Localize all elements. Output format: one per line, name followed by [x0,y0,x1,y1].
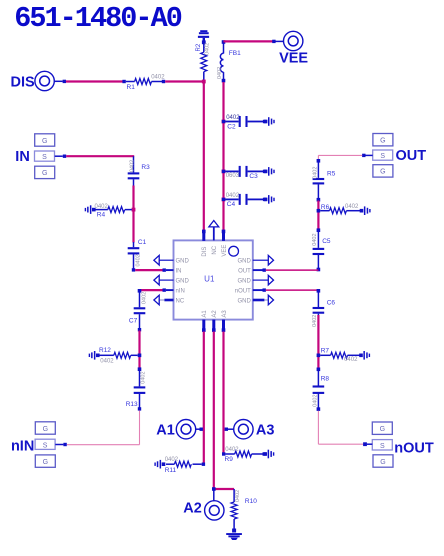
connector DIS [11,71,67,90]
wire C7 to R12 junction [138,331,140,369]
svg-text:OUT: OUT [396,148,427,164]
junction R6 node [317,209,321,213]
wire A2 rail [213,332,215,490]
resistor R6 (shunt) [320,204,360,214]
capacitor C2 [222,115,267,130]
svg-text:R12: R12 [99,347,111,354]
pin GND of U1 (right row5) [237,295,273,305]
junction A1 connector node [196,428,203,431]
svg-text:DIS: DIS [11,75,36,91]
svg-text:0402: 0402 [95,204,109,210]
capacitor C1 [128,239,147,272]
capacitor C6 [312,289,335,327]
svg-text:DIS: DIS [202,247,208,257]
pin GND of U1 (right row1) [237,255,273,265]
ferrite bead FB1 [217,40,241,82]
pin A2 of U1 (bottom) [212,310,218,332]
svg-text:R4: R4 [97,211,106,218]
svg-text:IN: IN [15,149,30,165]
svg-text:0402: 0402 [204,43,210,55]
capacitor C4 [222,193,267,208]
svg-text:GND: GND [237,298,251,304]
pin NC of U1 (left row5) [154,295,185,305]
wire A1 rail [203,332,205,465]
IC U1 body [174,240,253,319]
svg-text:651-1480-A0: 651-1480-A0 [14,2,182,35]
svg-text:0402: 0402 [136,254,142,266]
svg-text:nIN: nIN [176,288,185,294]
pin A3 of U1 (bottom) [222,310,228,332]
svg-text:A3: A3 [256,423,275,439]
capacitor C7 [129,289,147,331]
junction A3 connector node [225,428,234,431]
svg-text:0402: 0402 [151,75,165,81]
svg-text:IN: IN [176,269,182,275]
port IN (G-S-G pads) [15,134,66,179]
resistor R3 (series) [128,156,150,186]
svg-text:G: G [380,138,385,145]
svg-text:0402: 0402 [344,357,358,363]
svg-text:C2: C2 [227,123,236,130]
svg-text:G: G [380,459,385,466]
wire A3 rail [222,332,224,455]
ground at C3 [264,167,275,176]
svg-text:nOUT: nOUT [235,288,251,294]
svg-text:GND: GND [237,259,251,265]
svg-text:nIN: nIN [11,438,34,454]
wire DIS-R1 [66,80,123,82]
junction R7 node [317,354,321,358]
svg-text:S: S [42,154,47,161]
junction R4 node [132,208,136,212]
svg-text:0402: 0402 [217,67,223,79]
resistor R8 (series) [312,368,329,411]
ground at R12 [89,351,100,360]
wire R8 to nOUT port [318,411,363,444]
svg-text:NC: NC [212,245,218,254]
resistor R1 [122,75,165,91]
svg-text:G: G [43,459,48,466]
junction DIS-R2 node [202,80,206,84]
svg-text:A1: A1 [156,423,175,439]
pin IN of U1 (left) [163,268,182,274]
pin A1 of U1 (bottom) [202,310,208,332]
resistor R13 (series) [126,367,147,410]
ground at R11 [154,460,165,469]
svg-text:GND: GND [176,259,190,265]
svg-text:R10: R10 [245,498,257,505]
svg-text:OUT: OUT [238,269,251,275]
wire nIN pin to C7 [140,289,163,291]
svg-text:S: S [380,443,385,450]
svg-text:R13: R13 [126,401,138,408]
resistor R5 (series) [313,159,336,202]
svg-text:C1: C1 [138,239,147,246]
wire C1 to IN pin [135,269,162,271]
svg-text:0402: 0402 [312,233,318,245]
svg-text:FB1: FB1 [229,50,241,57]
svg-text:0402: 0402 [141,371,147,383]
wire R5 to C5 [317,201,319,229]
svg-text:0402: 0402 [100,359,114,365]
ground at R10 (down) [226,529,242,541]
svg-text:0402: 0402 [141,292,147,304]
pin GND of U1 (right row3) [237,275,273,285]
resistor R9 (shunt) [222,447,266,463]
wire nOUT pin to C6 [266,289,319,291]
svg-text:A2: A2 [183,500,202,516]
pin DIS of U1 (top) [202,230,208,257]
svg-text:C5: C5 [322,238,331,245]
junction A2 corner node [212,487,216,491]
svg-text:GND: GND [237,279,251,285]
ground at R9 [263,450,274,459]
svg-text:R3: R3 [141,164,150,171]
svg-text:R8: R8 [321,376,330,383]
svg-text:U1: U1 [204,275,215,284]
svg-text:S: S [380,153,385,160]
svg-text:A1: A1 [202,310,208,318]
capacitor C5 [312,228,331,271]
connector VEE [272,31,308,66]
svg-text:0402: 0402 [313,167,319,179]
pin nIN of U1 (left) [163,288,185,294]
resistor R2 [196,43,210,80]
wire DIS rail [203,82,205,231]
wire FB1-VEE [224,40,274,42]
ground at C4 [264,195,275,204]
pin GND of U1 (left row1) [154,255,190,265]
svg-text:0402: 0402 [235,490,241,502]
svg-text:0402: 0402 [225,447,239,453]
svg-text:G: G [380,426,385,433]
wire A2 to R10 [214,488,234,490]
svg-text:0603: 0603 [226,173,240,179]
wire R1-junction [165,80,204,82]
connector A1 [156,420,195,439]
power symbol VCC bar [198,30,209,44]
resistor R10 (shunt) [231,489,257,529]
svg-text:C4: C4 [227,201,236,208]
svg-text:VEE: VEE [222,245,228,257]
svg-text:NC: NC [176,298,185,304]
resistor R12 (shunt) [99,347,138,364]
pin nOUT of U1 (right) [235,288,266,294]
svg-text:R7: R7 [321,348,330,355]
wire R13 to nIN port [67,411,140,445]
svg-text:GND: GND [176,279,190,285]
svg-text:A3: A3 [222,310,228,318]
connector A2 [183,491,224,521]
svg-text:0402: 0402 [226,115,240,121]
port nOUT (G-S-G pads) [363,422,434,467]
svg-text:G: G [42,170,47,177]
svg-text:0402: 0402 [345,204,359,210]
resistor R11 (shunt) [165,457,205,474]
wire C6 to R7 junction [317,315,319,368]
svg-text:0402: 0402 [165,457,179,463]
svg-text:C7: C7 [129,317,138,324]
svg-text:VEE: VEE [279,50,308,66]
svg-text:C3: C3 [249,173,258,180]
svg-text:R5: R5 [327,170,336,177]
svg-text:0402: 0402 [312,394,318,406]
svg-text:A2: A2 [212,310,218,318]
ground at R7 [359,351,370,360]
svg-text:0402: 0402 [226,193,240,199]
wire VEE rail [222,82,224,231]
svg-text:G: G [380,169,385,176]
resistor R7 (shunt) [320,348,359,363]
svg-text:nOUT: nOUT [394,440,434,456]
pin VEE of U1 (top) [222,230,228,257]
port OUT (G-S-G pads) [362,134,426,178]
svg-text:0402: 0402 [129,160,135,172]
resistor R4 (shunt) [95,204,132,219]
svg-text:G: G [42,138,47,145]
svg-text:R1: R1 [127,84,136,91]
wire C5 to OUT pin [266,269,319,271]
wire IN to R3 [66,155,134,157]
ground at C2 [264,117,275,126]
ground at R4 [85,205,96,214]
junction R12 node [138,354,142,358]
svg-text:R2: R2 [196,43,202,51]
capacitor C3 [222,166,267,180]
svg-text:C6: C6 [327,299,336,306]
connector A3 [234,420,275,439]
wire R3 to C1 [132,186,134,243]
wire OUT port to R5 [318,155,362,160]
svg-text:R6: R6 [321,204,330,211]
pin GND of U1 (left row3) [154,275,190,285]
svg-text:R9: R9 [225,456,234,463]
pin NC of U1 (top, arrow) [209,221,219,255]
ground at R6 [360,206,371,215]
pin OUT of U1 (right) [238,268,266,274]
svg-text:G: G [43,426,48,433]
svg-text:R11: R11 [165,467,177,474]
svg-text:S: S [43,442,48,449]
port nIN (G-S-G pads) [11,422,67,468]
title text 651-1480-A0 [14,2,182,35]
